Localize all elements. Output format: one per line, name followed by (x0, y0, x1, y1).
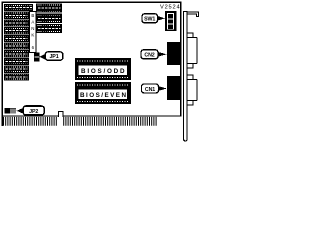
D-sub port of CN1 (187, 75, 198, 105)
RAM chip bank row 4 (4, 27, 29, 34)
RAM chip bank row 2 (4, 12, 29, 19)
jumper JP2 (5, 108, 17, 114)
svg-text:JP2: JP2 (29, 109, 38, 115)
label CN1 (142, 84, 168, 93)
RAM chip bank row 5 (4, 35, 29, 42)
RAM chip column 2 row 3 (36, 24, 62, 33)
BANK 6 label strip (30, 12, 36, 53)
EPROM U9 BIOS/ODD (75, 58, 131, 80)
PCB board outline (2, 2, 180, 116)
board left edge along fingers (1, 116, 3, 126)
RAM chip bank row 9 (4, 66, 29, 73)
RAM chip bank row 8 (4, 58, 29, 65)
RAM chip bank row 7 (4, 50, 29, 57)
EPROM U10 BIOS/EVEN (75, 82, 131, 104)
svg-text:K: K (31, 32, 34, 37)
card edge connector fingers (right section) (63, 117, 157, 126)
key notch (58, 112, 63, 117)
svg-text:CN2: CN2 (144, 53, 154, 59)
svg-text:N: N (31, 26, 34, 31)
svg-text:A: A (31, 19, 34, 24)
svg-text:JP1: JP1 (49, 54, 58, 60)
RAM chip bank row 3 (4, 19, 29, 26)
label SW1 (142, 14, 165, 23)
label JP1 (40, 52, 63, 60)
svg-text:SW1: SW1 (144, 17, 155, 23)
RAM chip column 2 row 2 (36, 14, 62, 23)
label CN2 (141, 50, 167, 59)
RAM chip bank row 10 (4, 73, 29, 80)
svg-text:V2524: V2524 (160, 4, 180, 10)
DIP switch SW1 (165, 11, 177, 31)
RAM chip bank row 6 (4, 43, 29, 50)
mounting bracket (184, 12, 199, 142)
svg-text:B: B (31, 13, 34, 18)
svg-text:CN1: CN1 (145, 87, 155, 93)
label JP2 (17, 106, 45, 115)
RAM chip column 2 row 1 (36, 4, 62, 13)
jumper JP1 (34, 53, 40, 62)
card edge connector fingers (left section) (3, 117, 58, 126)
connector CN2 header block (167, 42, 181, 65)
D-sub port of CN2 (187, 33, 198, 68)
RAM chip bank row 1 (4, 4, 33, 11)
connector CN1 header block (167, 76, 181, 100)
